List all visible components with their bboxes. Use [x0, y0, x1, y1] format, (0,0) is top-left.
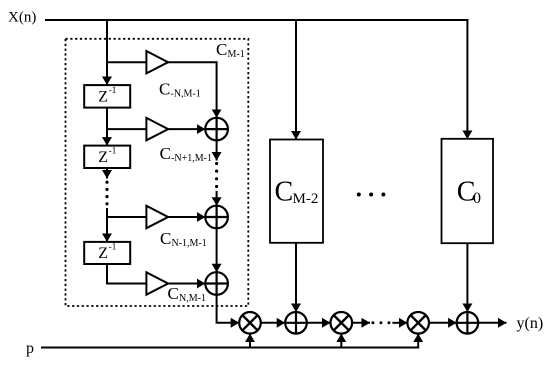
- svg-text:-N+1,M-1: -N+1,M-1: [171, 153, 212, 164]
- svg-text:N-1,M-1: N-1,M-1: [172, 238, 207, 249]
- svg-text:-1: -1: [109, 145, 117, 155]
- svg-text:-1: -1: [109, 85, 117, 95]
- svg-text:X(n): X(n): [8, 10, 36, 26]
- svg-text:y(n): y(n): [517, 315, 544, 332]
- svg-text:0: 0: [473, 190, 481, 207]
- svg-text:C: C: [275, 177, 294, 208]
- svg-text:Z: Z: [98, 88, 108, 105]
- svg-text:C: C: [160, 229, 171, 248]
- svg-text:C: C: [216, 40, 227, 59]
- svg-text:p: p: [26, 340, 34, 357]
- svg-text:-N,M-1: -N,M-1: [171, 89, 201, 100]
- svg-text:Z: Z: [98, 149, 108, 166]
- svg-text:N,M-1: N,M-1: [179, 293, 206, 304]
- svg-text:M-2: M-2: [293, 191, 319, 207]
- svg-text:M-1: M-1: [228, 49, 245, 60]
- svg-text:-1: -1: [109, 242, 117, 252]
- svg-text:C: C: [159, 80, 170, 99]
- svg-text:Z: Z: [98, 245, 108, 262]
- svg-text:C: C: [168, 284, 179, 303]
- svg-text:C: C: [160, 144, 171, 163]
